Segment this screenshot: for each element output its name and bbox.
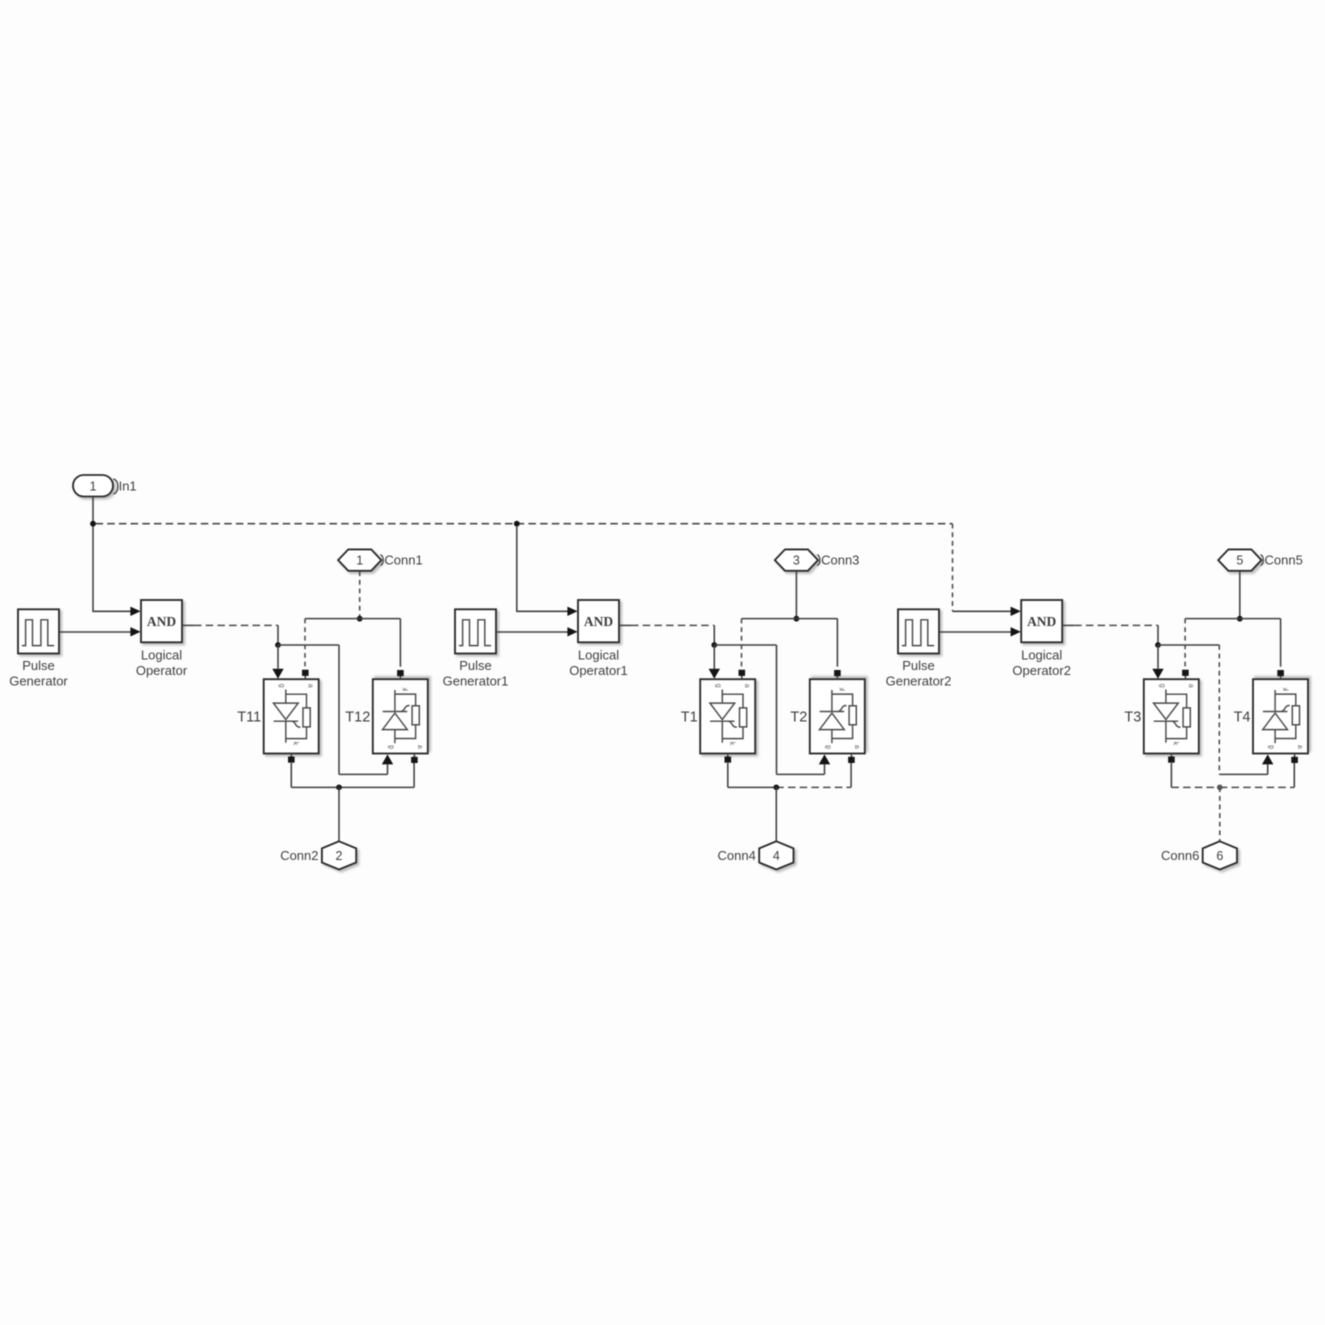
label Logical Operator — [136, 648, 188, 679]
svg-text:Generator: Generator — [9, 674, 68, 689]
svg-text:Logical: Logical — [141, 648, 182, 663]
wire bottom bus right — [1220, 786, 1295, 788]
svg-text:Conn4: Conn4 — [717, 848, 755, 863]
wire bus to T3 a terminal (dashed) — [1184, 619, 1186, 667]
wire bottom bus right — [776, 786, 851, 788]
junction node gate column T11 — [275, 642, 281, 648]
wire gate node to T4 g input — [1158, 645, 1273, 774]
junction node gate column T3 — [1155, 642, 1161, 648]
label Logical Operator2 — [1012, 648, 1071, 679]
svg-text:Operator: Operator — [136, 663, 188, 678]
wire Conn6 stem — [1219, 787, 1221, 841]
label Logical Operator1 — [569, 648, 628, 679]
svg-text:Conn2: Conn2 — [280, 848, 318, 863]
wire bottom bus left — [1171, 786, 1219, 788]
junction node bus to Logical Operator1 — [514, 521, 520, 527]
svg-text:1: 1 — [90, 479, 97, 493]
svg-text:Conn1: Conn1 — [384, 553, 422, 568]
wire T11 k terminal to bottom bus — [290, 763, 292, 787]
wire gate node to T2 g input — [714, 645, 830, 774]
wire T12 a terminal to bottom bus — [413, 763, 415, 787]
junction node bottom bus Conn4 — [773, 784, 779, 790]
junction node bottom bus Conn6 — [1217, 784, 1223, 790]
logical operator block AND (Logical Operator2) — [1021, 600, 1062, 642]
junction node Conn1 bus — [357, 616, 363, 622]
wire Pulse Generator output to AND input — [59, 627, 141, 636]
pmc port Conn6 (6) — [1203, 841, 1237, 869]
wire bottom bus right — [339, 786, 414, 788]
logical operator block AND (Logical Operator) — [141, 600, 182, 642]
svg-text:Pulse: Pulse — [22, 658, 55, 673]
wire T1 k terminal to bottom bus — [727, 763, 729, 787]
wire Conn3 bus horizontal — [742, 618, 838, 620]
wire T2 a terminal to bottom bus — [850, 763, 852, 787]
wire Pulse Generator2 output to AND input — [939, 627, 1021, 636]
junction node gate column T1 — [711, 642, 717, 648]
wire bus to T4 k terminal — [1280, 619, 1282, 667]
wire AND output (dashed) to gate node — [182, 625, 278, 645]
thyristor T1 — [700, 670, 755, 763]
wire gate node to T12 g input — [278, 645, 393, 774]
svg-text:1: 1 — [356, 554, 363, 568]
wire AND output (dashed) to gate node — [619, 625, 714, 645]
wire In1 bus (dashed) — [96, 523, 953, 525]
wire gate node to T11 g input — [272, 645, 283, 679]
svg-text:Generator1: Generator1 — [443, 674, 509, 689]
inport 1 In1 — [73, 475, 118, 497]
svg-text:T3: T3 — [1124, 710, 1141, 726]
svg-text:In1: In1 — [119, 479, 137, 494]
svg-text:Pulse: Pulse — [459, 658, 492, 673]
wire Conn5 bus horizontal — [1185, 618, 1281, 620]
svg-text:AND: AND — [584, 614, 613, 629]
thyristor T12 — [373, 670, 428, 763]
svg-text:6: 6 — [1216, 849, 1223, 863]
thyristor T4 — [1253, 670, 1308, 763]
svg-text:Conn6: Conn6 — [1161, 848, 1199, 863]
wire bottom bus left — [728, 786, 777, 788]
svg-text:Generator2: Generator2 — [886, 674, 952, 689]
svg-text:Logical: Logical — [1021, 648, 1062, 663]
svg-text:Pulse: Pulse — [902, 658, 935, 673]
wire bus to T11 a terminal (dashed) — [304, 619, 306, 667]
wire AND output (dashed) to gate node — [1062, 625, 1158, 645]
label Pulse Generator2 — [886, 658, 952, 689]
label Pulse Generator — [9, 658, 68, 689]
thyristor T3 — [1144, 670, 1199, 763]
wire gate node to T3 g input — [1152, 645, 1163, 679]
svg-text:2: 2 — [336, 849, 343, 863]
pulse generator block Pulse Generator — [18, 609, 59, 653]
thyristor T2 — [810, 670, 865, 763]
pulse generator block Pulse Generator2 — [898, 609, 939, 653]
svg-text:3: 3 — [793, 554, 800, 568]
svg-text:AND: AND — [1027, 614, 1056, 629]
label Pulse Generator1 — [443, 658, 509, 689]
svg-text:Operator1: Operator1 — [569, 663, 628, 678]
pmc port Conn3 (3) — [775, 549, 820, 570]
pmc port Conn2 (2) — [322, 841, 356, 869]
wire Conn3 stem — [795, 571, 797, 616]
junction node Conn3 bus — [794, 616, 800, 622]
svg-text:Conn5: Conn5 — [1265, 553, 1303, 568]
wire bus to T2 k terminal — [836, 619, 838, 667]
svg-text:T12: T12 — [345, 710, 370, 726]
wire T3 k terminal to bottom bus — [1170, 763, 1172, 787]
wire Pulse Generator1 output to AND input — [496, 627, 578, 636]
pmc port Conn1 (1) — [338, 549, 383, 570]
logical operator block AND (Logical Operator1) — [578, 600, 619, 642]
svg-text:5: 5 — [1236, 554, 1243, 568]
svg-text:Logical: Logical — [578, 648, 619, 663]
pmc port Conn5 (5) — [1218, 549, 1263, 570]
wire T4 a terminal to bottom bus — [1293, 763, 1295, 787]
svg-text:T11: T11 — [237, 710, 261, 726]
svg-text:AND: AND — [147, 614, 176, 629]
wire gate node to T1 g input — [709, 645, 720, 679]
svg-text:T2: T2 — [790, 710, 807, 726]
thyristor T11 — [264, 670, 319, 763]
pulse generator block Pulse Generator1 — [455, 609, 496, 653]
svg-text:Conn3: Conn3 — [821, 553, 859, 568]
junction node Conn5 bus — [1237, 616, 1243, 622]
wire Conn2 stem — [338, 787, 340, 841]
wire Conn1 bus horizontal — [305, 618, 400, 620]
junction node on In1 wire — [90, 521, 96, 527]
wire bus to T1 a terminal (dashed) — [741, 619, 743, 667]
pmc port Conn4 (4) — [759, 841, 793, 869]
wire bus drop to Logical Operator1 input — [517, 526, 578, 616]
wire bottom bus left — [291, 786, 339, 788]
svg-text:T1: T1 — [681, 710, 698, 726]
wire bus drop to Logical Operator2 input (dashed) — [953, 524, 1021, 616]
svg-text:4: 4 — [773, 849, 780, 863]
wire Conn5 stem — [1239, 571, 1241, 616]
junction node bottom bus Conn2 — [336, 784, 342, 790]
wire In1 to Logical Operator input — [93, 497, 141, 617]
wire Conn4 stem — [775, 787, 777, 841]
svg-text:T4: T4 — [1234, 710, 1251, 726]
svg-text:Operator2: Operator2 — [1012, 663, 1071, 678]
wire Conn1 stem — [359, 571, 361, 616]
wire bus to T12 k terminal — [399, 619, 401, 667]
